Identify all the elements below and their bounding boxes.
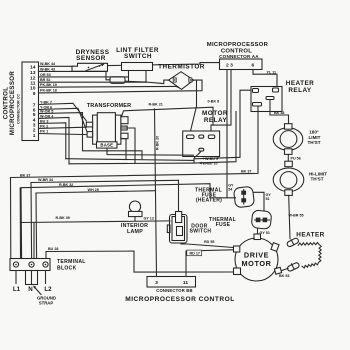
svg-text:14: 14 bbox=[30, 65, 36, 71]
svg-text:BU 28: BU 28 bbox=[48, 247, 58, 251]
svg-text:2: 2 bbox=[33, 128, 36, 134]
wire R-BK 21 (transformer tab A to motor relay top right node) bbox=[122, 107, 214, 125]
svg-text:SWITCH: SWITCH bbox=[190, 229, 212, 235]
svg-text:TRANSFORMER: TRANSFORMER bbox=[87, 103, 131, 109]
left bus wire WH 25 (to R-BK 20 vertical) bbox=[36, 191, 156, 193]
svg-text:W-BR 34: W-BR 34 bbox=[38, 178, 54, 182]
svg-text:BK 53: BK 53 bbox=[279, 274, 289, 278]
svg-text:BK 37: BK 37 bbox=[241, 170, 251, 174]
svg-text:2 3: 2 3 bbox=[226, 63, 233, 69]
svg-text:PK 2: PK 2 bbox=[40, 124, 48, 128]
terminal block lead L2 bbox=[45, 271, 47, 284]
left bus wire W-BR 34 (to door switch) bbox=[31, 180, 179, 182]
wire from dryness sensor to connector AA bbox=[108, 63, 220, 66]
svg-text:RD 55: RD 55 bbox=[204, 240, 214, 244]
wire W-BU 10 (coil bus to heater relay bottom) bbox=[194, 112, 236, 164]
wire BR 52 (pin 11 to lint filter switch) bbox=[39, 81, 147, 83]
svg-text:PK-BK 18: PK-BK 18 bbox=[40, 88, 57, 92]
svg-text:RELAY: RELAY bbox=[204, 117, 228, 124]
160 limit thermostat bbox=[273, 124, 321, 155]
heater element bbox=[286, 232, 324, 272]
svg-text:OR 53: OR 53 bbox=[40, 73, 51, 77]
wire AA pin 3 to motor relay top right bbox=[211, 70, 231, 136]
wire BK 53 (motor to heater lug 2) bbox=[281, 268, 288, 271]
svg-text:MICROPROCESSOR: MICROPROCESSOR bbox=[9, 71, 16, 135]
wire 0-BK 8 (thermistor right to motor relay) bbox=[191, 80, 197, 135]
wire GY 51 (thermal fuse motor to drive motor top) bbox=[257, 228, 259, 234]
transformer bbox=[86, 103, 131, 148]
lint filter switch bbox=[116, 47, 159, 71]
svg-text:L2: L2 bbox=[44, 286, 52, 293]
wire W-BK 44 (pin 14 to dryness sensor) bbox=[39, 65, 73, 67]
vertical label MICROPROCESSOR CONTROL bbox=[3, 71, 17, 135]
ground strap box bbox=[26, 271, 38, 285]
wire W-OR 4 (pin 4 down to W-BU bus) bbox=[39, 117, 70, 163]
svg-text:12: 12 bbox=[30, 75, 36, 81]
svg-text:9: 9 bbox=[33, 91, 36, 97]
wire left W-BU bus segment 2 bbox=[69, 162, 194, 165]
thermal fuse (heater) bbox=[195, 186, 255, 208]
svg-text:CONTROL: CONTROL bbox=[3, 87, 10, 120]
svg-text:11: 11 bbox=[183, 280, 188, 286]
door switch bbox=[167, 212, 211, 244]
svg-text:HEATER: HEATER bbox=[296, 232, 325, 239]
svg-text:W-BK 44: W-BK 44 bbox=[40, 62, 56, 66]
svg-text:CONNECTOR CC: CONNECTOR CC bbox=[17, 94, 21, 124]
ground strap label and arrow bbox=[33, 286, 56, 306]
svg-text:WH 25: WH 25 bbox=[88, 188, 99, 192]
connector CC pin numbers bbox=[30, 65, 36, 139]
svg-text:R-BK 20: R-BK 20 bbox=[156, 136, 160, 150]
terminal block bbox=[10, 259, 86, 272]
heater relay bbox=[251, 80, 314, 111]
svg-text:GY 51: GY 51 bbox=[260, 231, 270, 235]
wire thermal fuse heater to thermal fuse motor (GY 51) bbox=[253, 192, 264, 211]
wire BU 28 (terminal block L2 to drive motor lower left) bbox=[46, 251, 234, 272]
wire riser to terminal block N bbox=[33, 223, 35, 259]
svg-text:PU 56: PU 56 bbox=[291, 157, 301, 161]
svg-text:BU 3: BU 3 bbox=[40, 119, 48, 123]
dryness sensor bbox=[72, 49, 110, 72]
svg-text:PK 1: PK 1 bbox=[40, 130, 48, 134]
wire AA pin 2 down to thermal fuse line (GY 54) bbox=[226, 70, 228, 198]
microprocessor control connector AA bbox=[207, 42, 269, 69]
svg-text:N: N bbox=[28, 286, 33, 293]
wire RD 17 (connector BB pin 11 to drive motor) bbox=[186, 250, 233, 277]
svg-text:R-BK 32: R-BK 32 bbox=[59, 183, 73, 187]
motor relay bbox=[183, 110, 228, 156]
hi-limit thermostat bbox=[273, 161, 327, 195]
wire riser W-BR 34 to terminal block bbox=[30, 183, 33, 259]
motor relay coil hook wire bbox=[194, 151, 201, 163]
wire W-BU 9 (coil to heater relay TL via right bus) bbox=[194, 90, 251, 159]
svg-text:THERMISTOR: THERMISTOR bbox=[158, 64, 205, 71]
wire transformer tab C to W-BU bus bbox=[121, 139, 126, 159]
svg-text:BR 52: BR 52 bbox=[40, 78, 50, 82]
svg-text:FUSE: FUSE bbox=[216, 222, 231, 228]
wire BU 3 (pin 3 down to W-BU bus) bbox=[39, 123, 66, 159]
splice on W-BK 43 bbox=[110, 77, 125, 84]
svg-text:0-BK 8: 0-BK 8 bbox=[208, 100, 220, 104]
svg-text:CONNECTOR AA: CONNECTOR AA bbox=[219, 54, 259, 59]
svg-text:W-OR 4: W-OR 4 bbox=[40, 114, 54, 118]
wire OR 53 (pin 12 to lint filter switch) bbox=[39, 76, 129, 78]
wire left W-BU bus segment 1 bbox=[66, 159, 194, 161]
svg-text:CONNECTOR BB: CONNECTOR BB bbox=[156, 288, 193, 293]
wire PK-BK 19 (pin 10 to thermistor bottom) bbox=[39, 86, 182, 89]
svg-text:HEATER: HEATER bbox=[286, 80, 315, 87]
wire PK 1 (pin 1 to transformer tab L2 lower) bbox=[39, 134, 88, 135]
drive motor bbox=[234, 234, 282, 281]
wire riser WH 25 to terminal block bbox=[35, 193, 38, 259]
svg-text:RD 17: RD 17 bbox=[190, 252, 200, 256]
svg-text:SWITCH: SWITCH bbox=[124, 53, 152, 60]
svg-text:W-OR 5: W-OR 5 bbox=[40, 110, 53, 114]
svg-text:RELAY: RELAY bbox=[288, 87, 312, 94]
wire riser BK 37 to terminal block bbox=[10, 178, 12, 259]
wire W-BK 43 (pin 13 to splice and thermistor left) bbox=[39, 71, 111, 79]
svg-text:TH'ST: TH'ST bbox=[310, 177, 323, 182]
svg-text:MICROPROCESSOR CONTROL: MICROPROCESSOR CONTROL bbox=[125, 296, 235, 303]
left bus wire R-BK 32 (to thermal fuse heater) bbox=[21, 184, 236, 198]
svg-text:3: 3 bbox=[155, 280, 158, 286]
svg-text:5: 5 bbox=[33, 112, 36, 118]
wire R-BK 39 (to interior lamp / door switch) bbox=[21, 221, 171, 223]
wire W-OR 5 (pin 5 loop to base area) bbox=[39, 113, 143, 159]
interior lamp bbox=[121, 201, 148, 235]
wire PK 2 (pin 2 to transformer tab L1 lower) bbox=[39, 127, 87, 128]
svg-text:TH'ST: TH'ST bbox=[307, 140, 320, 145]
svg-text:L1: L1 bbox=[13, 286, 21, 293]
thermal fuse (motor) bbox=[209, 210, 272, 229]
svg-text:1: 1 bbox=[33, 133, 36, 139]
svg-text:R-BK 39: R-BK 39 bbox=[56, 216, 70, 220]
svg-text:W-BU 10: W-BU 10 bbox=[203, 162, 218, 166]
svg-text:11: 11 bbox=[30, 80, 35, 86]
svg-text:4: 4 bbox=[33, 117, 36, 123]
wire lint switch right leg bbox=[145, 71, 147, 83]
wire PU 56 (160 limit to hi-limit) bbox=[287, 154, 289, 161]
wire PK-BK 18 (pin 9 to thermistor right node) bbox=[39, 80, 203, 93]
svg-text:GY 12: GY 12 bbox=[144, 216, 154, 220]
wire W-BR 55 (hi-limit to heater lug 1) bbox=[289, 195, 290, 238]
wire YL 11 (AA pin 6 to heater relay) bbox=[253, 70, 277, 89]
wire Y-BK 7 (pin 7 to transformer tab L1) bbox=[39, 103, 87, 121]
svg-text:BASE: BASE bbox=[100, 143, 113, 148]
terminal block lead L1 bbox=[15, 271, 17, 284]
wire RD 55 (door switch to drive motor) bbox=[181, 243, 236, 249]
svg-text:TERMINAL: TERMINAL bbox=[57, 259, 86, 265]
svg-text:13: 13 bbox=[30, 70, 36, 76]
svg-text:MOTOR: MOTOR bbox=[202, 110, 228, 117]
wire riser R-BK 32 to terminal block bbox=[20, 188, 23, 259]
wire riser R-BK 39 to terminal block bbox=[19, 188, 21, 259]
svg-text:PK-BK 19: PK-BK 19 bbox=[40, 83, 57, 87]
svg-text:LAMP: LAMP bbox=[127, 229, 143, 235]
wire BK 38 (heater relay to 160 limit thermostat) bbox=[270, 100, 289, 124]
svg-text:MICROPROCESSOR: MICROPROCESSOR bbox=[207, 42, 269, 48]
left bus wire BK 37 bbox=[11, 106, 259, 178]
wire door switch top to W-BR 34 line bbox=[178, 180, 180, 211]
svg-text:6: 6 bbox=[252, 63, 255, 69]
terminal block lead N bbox=[31, 271, 33, 284]
thermistor bbox=[158, 64, 205, 90]
svg-text:BLOCK: BLOCK bbox=[57, 265, 77, 271]
svg-text:51: 51 bbox=[266, 197, 270, 201]
wire transformer tab B to W-BU bus 2 bbox=[121, 128, 135, 163]
svg-text:STRAP: STRAP bbox=[39, 301, 54, 306]
svg-text:R-BK 21: R-BK 21 bbox=[149, 103, 163, 107]
svg-text:MOTOR: MOTOR bbox=[241, 259, 271, 268]
svg-text:10: 10 bbox=[30, 86, 36, 92]
svg-text:W-BK 43: W-BK 43 bbox=[40, 67, 55, 71]
svg-text:SENSOR: SENSOR bbox=[76, 55, 106, 62]
svg-text:W-BR 55: W-BR 55 bbox=[289, 214, 304, 218]
wire from splice to thermistor left vertex bbox=[125, 80, 169, 84]
connector BB bbox=[147, 277, 196, 294]
wire Y-OR 6 (pin 6 to transformer tab L2) bbox=[39, 108, 88, 132]
svg-text:W-BU 9: W-BU 9 bbox=[205, 157, 218, 161]
svg-text:BK 38: BK 38 bbox=[274, 111, 284, 115]
connector CC (microprocessor control) body bbox=[17, 62, 39, 141]
wire from transformer base to relay coil area bbox=[107, 148, 194, 155]
svg-text:YL 11: YL 11 bbox=[267, 70, 277, 74]
svg-text:Y-BK 7: Y-BK 7 bbox=[40, 100, 52, 104]
wire R-BK 20 (junction down to connector BB pin 3) bbox=[155, 109, 157, 277]
svg-text:BK 37: BK 37 bbox=[20, 173, 30, 177]
wire lint switch left leg bbox=[128, 71, 130, 82]
